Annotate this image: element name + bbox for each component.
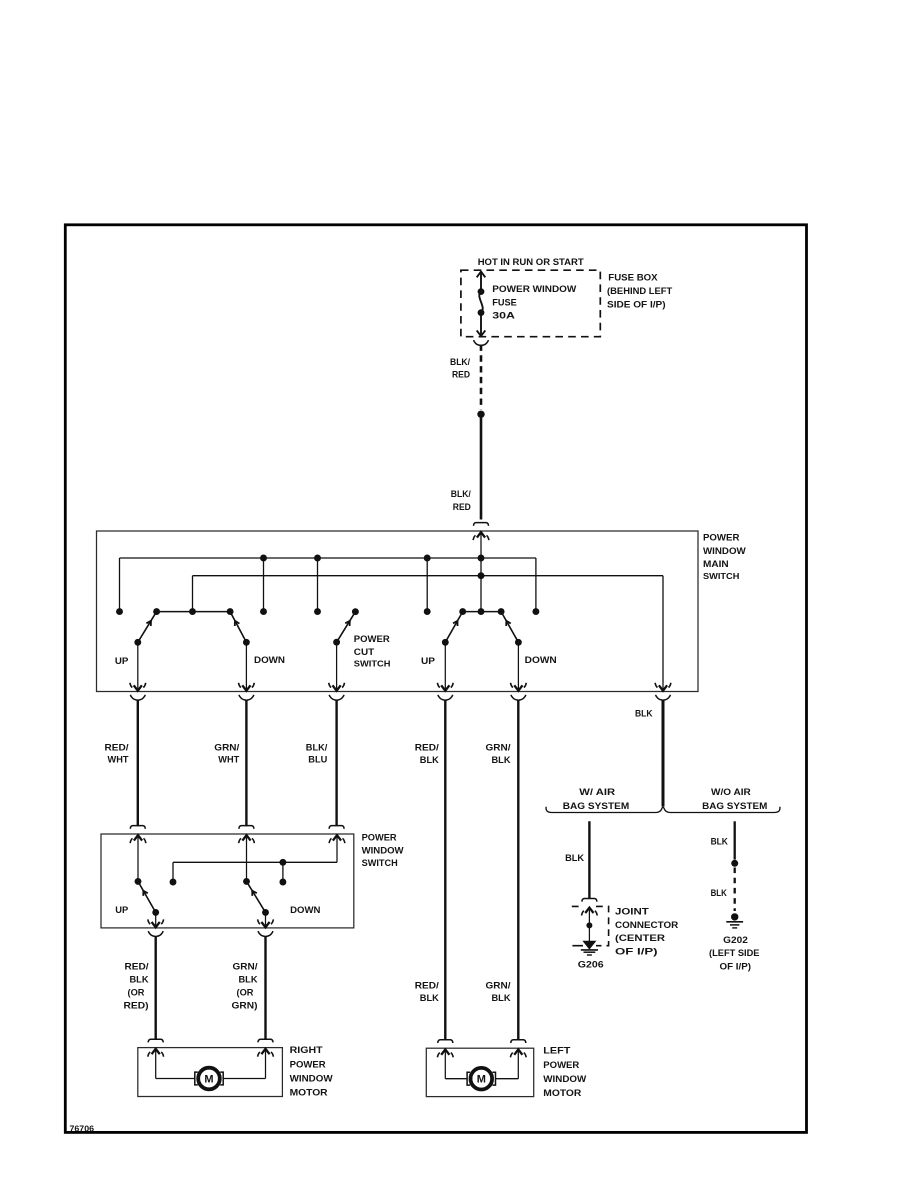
- pivot dots: [134, 639, 141, 646]
- wire tap at 263.5: [263, 558, 265, 612]
- svg-text:W/O AIR: W/O AIR: [711, 787, 751, 798]
- switch arm lower DOWN: [247, 881, 266, 912]
- wire BLK to brace: [662, 700, 665, 806]
- connector below main switch x445.3: [438, 695, 445, 700]
- svg-text:CUT: CUT: [354, 647, 375, 658]
- svg-text:POWER: POWER: [354, 634, 390, 645]
- right motor internal wires: [156, 1078, 195, 1080]
- svg-text:M: M: [204, 1073, 213, 1085]
- left power window motor box: [426, 1048, 533, 1096]
- svg-text:WINDOW: WINDOW: [543, 1074, 586, 1085]
- brace (alternatives): [546, 807, 780, 813]
- pin arrow out BLK/BLU: [336, 642, 338, 690]
- wire tap at 317.5: [317, 558, 319, 612]
- svg-text:DOWN: DOWN: [254, 655, 285, 666]
- power window switch box: [101, 834, 354, 928]
- connector below main switch x663: [656, 695, 663, 700]
- pin arrow out to motor L: [155, 912, 157, 926]
- svg-text:GRN/: GRN/: [233, 961, 258, 972]
- svg-text:LEFT: LEFT: [543, 1045, 570, 1056]
- junction dot on bus2: [478, 572, 485, 579]
- svg-text:GRN): GRN): [232, 1000, 258, 1011]
- svg-text:BAG SYSTEM: BAG SYSTEM: [702, 801, 767, 812]
- svg-text:(OR: (OR: [237, 987, 254, 998]
- svg-text:WINDOW: WINDOW: [703, 546, 746, 557]
- pin arrow out BLK: [662, 685, 664, 690]
- splice dot G202 branch: [731, 860, 738, 867]
- fuse box (dashed): [461, 270, 600, 337]
- pin arrow into left motor R: [517, 1050, 519, 1079]
- wire BLK/BLU: [335, 700, 337, 826]
- pin arrow B+ into main switch: [480, 533, 482, 558]
- connector below main switch x137.8: [130, 695, 137, 700]
- pin arrow out to motor R: [265, 912, 267, 926]
- svg-text:OF I/P): OF I/P): [615, 946, 658, 957]
- wire bus2 left drop: [192, 576, 194, 612]
- bus 2 (lower feed rail): [193, 575, 664, 577]
- stub mid: [282, 862, 284, 882]
- svg-text:RED: RED: [452, 370, 470, 381]
- wire RED/WHT: [137, 700, 139, 826]
- pin arrow out GRN/WHT: [245, 642, 247, 690]
- svg-text:BLK: BLK: [635, 708, 653, 719]
- wire RED/BLK long: [444, 700, 446, 1040]
- wire GRN/BLK long: [517, 700, 519, 1040]
- internal bus (switch): [173, 861, 337, 863]
- svg-text:G202: G202: [723, 935, 748, 946]
- svg-text:RED/: RED/: [105, 742, 129, 753]
- svg-text:BLK: BLK: [711, 836, 728, 847]
- svg-text:(BEHIND LEFT: (BEHIND LEFT: [607, 286, 672, 297]
- switch arm left DOWN: [230, 612, 246, 643]
- fuse F1 POWER WINDOW FUSE 30A: [477, 272, 486, 278]
- pin arrow in RED/WHT: [137, 836, 139, 882]
- switch arm lower UP: [138, 881, 156, 912]
- contact dots left group: [116, 608, 123, 615]
- svg-text:POWER: POWER: [703, 533, 740, 544]
- svg-text:BLK/: BLK/: [451, 489, 471, 500]
- wire GRN/WHT: [245, 700, 247, 826]
- svg-text:POWER WINDOW: POWER WINDOW: [492, 284, 576, 295]
- contact dots lower box: [170, 879, 177, 886]
- svg-text:UP: UP: [115, 656, 129, 667]
- svg-text:WHT: WHT: [218, 754, 239, 765]
- wire end BLK/BLU: [329, 826, 344, 829]
- svg-text:MAIN: MAIN: [703, 559, 729, 570]
- wire BLK/RED dashed segment: [480, 345, 483, 410]
- svg-text:RED: RED: [453, 502, 471, 513]
- junction dot on internal bus: [279, 859, 286, 866]
- svg-text:BLK: BLK: [565, 853, 584, 864]
- connector below main switch x518.4: [511, 695, 518, 700]
- pin arrow into right motor L: [155, 1049, 157, 1078]
- svg-text:POWER: POWER: [290, 1060, 326, 1071]
- pivot dots lower box: [152, 909, 159, 916]
- contact dots center group: [260, 608, 267, 615]
- contact row right link: [463, 611, 501, 613]
- wire tap at 427.2: [426, 558, 428, 612]
- wire end at joint connector: [582, 899, 597, 902]
- switch arm power cut: [337, 612, 356, 643]
- svg-text:BLK: BLK: [239, 974, 258, 985]
- svg-text:UP: UP: [421, 656, 436, 667]
- wire BLK (w/o air bag) solid: [734, 821, 736, 859]
- svg-text:(OR: (OR: [128, 987, 145, 998]
- wire end GRN/BLK: [511, 1040, 526, 1043]
- svg-text:BLK: BLK: [130, 974, 149, 985]
- wire bus1 left drop: [119, 558, 121, 612]
- svg-text:G206: G206: [578, 960, 604, 971]
- svg-text:RIGHT: RIGHT: [290, 1045, 323, 1056]
- svg-text:POWER: POWER: [543, 1060, 579, 1071]
- svg-text:WINDOW: WINDOW: [290, 1074, 333, 1085]
- stub left: [172, 862, 174, 882]
- pin arrow into joint connector: [588, 908, 590, 941]
- svg-text:M: M: [477, 1074, 486, 1086]
- svg-text:WHT: WHT: [108, 754, 129, 765]
- svg-text:SWITCH: SWITCH: [362, 858, 398, 868]
- motor M right: [198, 1068, 220, 1090]
- connector below switch L: [148, 931, 155, 936]
- junction dots on bus1: [260, 555, 267, 562]
- svg-text:UP: UP: [115, 905, 129, 916]
- svg-text:BLK: BLK: [420, 993, 439, 1004]
- svg-text:BLU: BLU: [308, 754, 327, 765]
- joint connector box (dashed): [572, 906, 609, 945]
- splice node on BLK/RED wire: [477, 411, 484, 418]
- svg-text:HOT IN RUN OR START: HOT IN RUN OR START: [478, 257, 584, 268]
- wire end GRN/WHT: [239, 826, 254, 829]
- svg-text:BLK: BLK: [420, 755, 439, 766]
- bus 1 (upper feed rail): [120, 557, 536, 559]
- switch arm right DOWN: [501, 612, 518, 643]
- svg-text:POWER: POWER: [362, 833, 397, 843]
- right power window motor box: [138, 1048, 283, 1097]
- wire BLK/RED solid segment: [480, 414, 483, 519]
- switch arm right UP: [445, 612, 462, 643]
- ground G206: [583, 941, 595, 949]
- wire bus1 right drop: [535, 558, 537, 612]
- switch arm left UP: [138, 612, 157, 643]
- motor M left: [471, 1068, 493, 1090]
- svg-text:JOINT: JOINT: [615, 906, 649, 917]
- svg-text:BLK/: BLK/: [450, 357, 470, 368]
- svg-text:(LEFT SIDE: (LEFT SIDE: [709, 948, 760, 959]
- svg-text:(CENTER: (CENTER: [615, 933, 665, 944]
- svg-text:DOWN: DOWN: [290, 905, 320, 916]
- svg-text:DOWN: DOWN: [525, 655, 557, 666]
- svg-text:GRN/: GRN/: [214, 742, 239, 753]
- junction dot in joint connector: [586, 922, 592, 928]
- wire main feed drop: [480, 558, 482, 612]
- connector into main switch (wire end): [474, 523, 489, 526]
- svg-text:RED/: RED/: [415, 742, 439, 753]
- svg-text:BAG SYSTEM: BAG SYSTEM: [563, 801, 630, 812]
- svg-text:GRN/: GRN/: [486, 980, 511, 991]
- svg-text:BLK: BLK: [492, 755, 511, 766]
- svg-text:MOTOR: MOTOR: [290, 1087, 328, 1098]
- svg-text:RED): RED): [124, 1000, 149, 1011]
- svg-text:OF I/P): OF I/P): [720, 961, 752, 972]
- pin arrow out RED/BLK: [444, 642, 446, 690]
- contact row left link: [157, 611, 231, 613]
- power window main switch box: [97, 531, 699, 692]
- contact dots right group: [424, 608, 431, 615]
- pin arrow in BLK/BLU: [336, 836, 338, 863]
- wire end into right motor L: [148, 1039, 163, 1042]
- wire RED/BLK (OR RED): [154, 937, 156, 1040]
- wire BLK dashed to ground: [734, 868, 736, 912]
- svg-text:RED/: RED/: [125, 961, 149, 972]
- pin arrow in GRN/WHT: [246, 836, 248, 882]
- svg-text:SWITCH: SWITCH: [354, 659, 391, 668]
- svg-text:76706: 76706: [70, 1124, 95, 1133]
- svg-text:BLK: BLK: [711, 888, 727, 899]
- svg-text:30A: 30A: [492, 310, 515, 321]
- wire end into right motor R: [258, 1039, 273, 1042]
- connector below switch R: [258, 931, 265, 936]
- left motor internal wires: [445, 1078, 467, 1080]
- svg-text:WINDOW: WINDOW: [362, 846, 405, 856]
- svg-text:SWITCH: SWITCH: [703, 572, 740, 581]
- ground G202: [731, 913, 738, 920]
- pin arrow out RED/WHT: [137, 642, 139, 690]
- pin arrow out GRN/BLK: [517, 642, 519, 690]
- connector below main switch x246.4: [239, 695, 246, 700]
- wire end RED/BLK: [438, 1040, 453, 1043]
- svg-text:MOTOR: MOTOR: [543, 1088, 581, 1099]
- svg-text:FUSE BOX: FUSE BOX: [608, 273, 658, 284]
- svg-text:SIDE OF I/P): SIDE OF I/P): [607, 299, 666, 310]
- wire BLK (w/ air bag): [588, 821, 590, 898]
- svg-text:BLK/: BLK/: [306, 742, 328, 753]
- wire end RED/WHT: [130, 826, 145, 829]
- outer border frame: [65, 225, 806, 1133]
- svg-text:CONNECTOR: CONNECTOR: [615, 920, 678, 931]
- svg-text:BLK: BLK: [492, 993, 511, 1004]
- pin arrow into left motor L: [444, 1050, 446, 1079]
- wire bus2 right drop: [662, 576, 664, 685]
- pin arrow into right motor R: [265, 1049, 267, 1078]
- svg-text:GRN/: GRN/: [486, 742, 511, 753]
- svg-text:RED/: RED/: [415, 980, 439, 991]
- wire GRN/BLK (OR GRN): [264, 937, 266, 1040]
- connector below fuse box: [474, 340, 481, 345]
- svg-text:FUSE: FUSE: [492, 297, 517, 308]
- svg-text:W/ AIR: W/ AIR: [579, 787, 615, 798]
- connector below main switch x336.6: [329, 695, 336, 700]
